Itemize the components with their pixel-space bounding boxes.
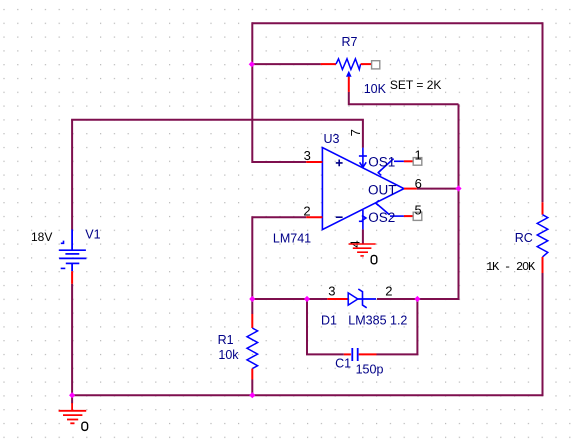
svg-text:R1: R1 [218,333,234,347]
junction node OUT [455,185,461,191]
wire R1 top lead [251,299,253,314]
svg-text:OUT: OUT [368,183,397,198]
OS1 pin lead [378,159,413,176]
diode D1 (LM385) [327,289,376,308]
ground bottom left [59,403,87,423]
wire C1 loop right [377,299,418,354]
svg-text:2: 2 [303,204,310,219]
OS1 open terminal square [413,158,422,166]
wire op-amp pin4 to ground [362,229,364,243]
resistor R1 [247,314,258,380]
junction node R1 bottom [249,392,255,398]
svg-text:7: 7 [348,129,363,136]
potentiometer R7 [321,59,372,92]
wire OUT junction vertical down to D1 row [417,104,458,299]
wire pin 2 to R1 top junction [252,217,306,299]
OS2 open terminal square [413,212,422,220]
svg-text:C1: C1 [335,357,351,371]
svg-text:OS2: OS2 [368,210,395,225]
wire R7 wiper down and across [349,92,459,104]
capacitor C1 [344,348,377,361]
junction node R1 top [249,296,255,302]
junction node R7 tap [249,61,255,67]
OS2 pin lead [376,200,414,216]
wire left vertical upper (18V to battery) [71,120,73,230]
wire x=252 vertical to pin 3 [252,22,306,162]
junction node D1 left [304,296,310,302]
junction node D1 right [414,296,420,302]
wire right lower [542,273,544,395]
wire right upper [542,22,544,202]
svg-text:5: 5 [415,203,422,218]
svg-text:10K: 10K [364,82,387,96]
op-amp - input mark [336,216,343,218]
wire R1 bottom lead [251,380,253,396]
junction node ground rail [69,392,75,398]
pin 4 blue lead with arrow [359,210,366,230]
svg-text:10k: 10k [218,348,239,362]
wire left vertical lower (battery to bottom rail) [71,284,73,395]
svg-text:150p: 150p [356,362,384,376]
svg-text:RC: RC [515,231,533,245]
svg-text:LM385 1.2: LM385 1.2 [348,314,407,328]
op-amp + input mark [336,160,343,167]
svg-text:3: 3 [328,284,335,299]
node 0 label (left ground) [82,422,88,430]
svg-text:OS1: OS1 [368,155,395,170]
pin 3 red stub [306,161,322,163]
battery V1 [59,229,87,283]
wire D1 row left segment [252,298,307,300]
svg-text:18V: 18V [31,230,52,244]
wire D1 right lead [377,298,417,300]
wire top loop [252,22,542,24]
svg-text:3: 3 [304,148,311,163]
wire 18V rail to pin 7 [71,120,363,148]
svg-text:1: 1 [415,148,422,163]
pin 7 blue lead with arrow [359,148,367,168]
wire bottom rail [71,394,543,396]
ground under op-amp [349,244,376,256]
wire C1 loop left [307,299,344,354]
OUT pin red stub [404,188,417,190]
wire D1 left lead [307,298,327,300]
svg-text:2: 2 [385,284,392,299]
svg-text:6: 6 [415,176,422,191]
svg-text:SET = 2K: SET = 2K [390,78,441,92]
svg-text:D1: D1 [321,314,337,328]
pin 2 red stub [306,216,322,218]
resistor RC [537,202,548,273]
node 0 label (op-amp ground) [371,255,377,263]
wire OUT pin to junction [417,188,459,190]
svg-text:V1: V1 [85,227,100,241]
svg-text:R7: R7 [342,35,358,49]
R7 open terminal square [372,61,380,69]
wire R7 left lead [252,63,321,65]
wire left ground stub [71,395,73,403]
svg-text:1K - 20K: 1K - 20K [486,260,536,274]
svg-text:U3: U3 [324,132,340,146]
svg-text:LM741: LM741 [273,231,311,245]
op-amp U3 triangle [322,148,404,230]
